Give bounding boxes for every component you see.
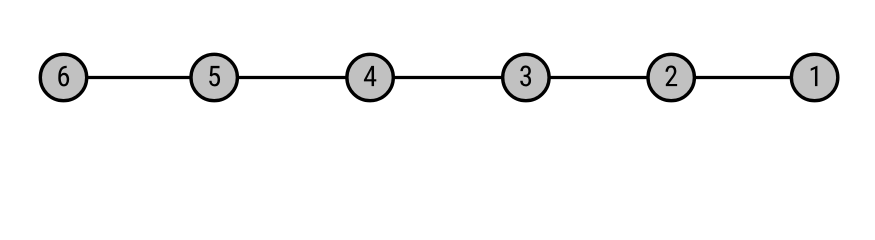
wire edge 2-1 (671, 76, 814, 79)
wire edge 4-3 (370, 76, 526, 79)
wire edge 3-2 (526, 76, 671, 79)
node 1 label (811, 66, 818, 86)
node 3 label (520, 66, 531, 87)
node 6 circle (40, 54, 86, 100)
node 4 circle (347, 54, 393, 100)
node 4 label (364, 66, 376, 86)
node 3 circle (503, 54, 549, 100)
wire edge 6-5 (64, 76, 215, 79)
node 1 circle (791, 54, 837, 100)
node 5 label (209, 66, 220, 87)
wire edge 5-4 (214, 76, 370, 79)
node 2 circle (648, 54, 694, 100)
node 2 label (665, 66, 677, 87)
node 6 label (58, 66, 69, 87)
node 5 circle (191, 54, 237, 100)
